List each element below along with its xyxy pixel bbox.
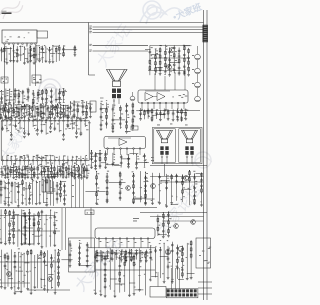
resistor R239 — [27, 250, 29, 256]
resistor R186 — [53, 166, 55, 172]
value label — [24, 274, 26, 277]
wire — [100, 251, 102, 294]
wire — [38, 212, 40, 244]
value label — [188, 187, 190, 190]
resistor R222 — [168, 228, 170, 234]
resistor R124 — [159, 60, 161, 66]
value label — [47, 162, 49, 165]
value label — [119, 186, 121, 189]
value label — [43, 113, 45, 116]
value label — [34, 289, 35, 292]
value label — [7, 129, 9, 132]
value label — [35, 118, 37, 121]
wire — [42, 46, 44, 63]
value label — [139, 265, 141, 268]
resistor R119 — [155, 54, 157, 60]
wire — [134, 197, 146, 199]
value label — [95, 253, 97, 256]
value label — [91, 164, 93, 167]
value label — [43, 123, 45, 126]
value label — [86, 158, 87, 161]
value label — [65, 104, 67, 107]
wire pin lead — [63, 156, 65, 160]
N101 pin b5 — [19, 159, 21, 161]
wire — [71, 166, 73, 177]
value label — [65, 128, 67, 131]
value label — [83, 117, 85, 120]
wire junction — [70, 101, 71, 102]
value label — [37, 96, 39, 99]
resistor R167 — [54, 105, 56, 111]
value label — [91, 212, 93, 215]
wire — [150, 176, 204, 178]
value label — [4, 201, 6, 204]
wire — [19, 184, 24, 186]
value label — [10, 95, 12, 98]
capacitor C176 — [28, 111, 31, 116]
value label — [7, 187, 8, 190]
resistor R155 — [5, 106, 7, 112]
value label — [90, 211, 91, 214]
ground — [127, 167, 130, 169]
wire — [147, 108, 149, 118]
value label — [127, 165, 128, 168]
resistor R188 — [59, 167, 61, 173]
value label — [187, 109, 189, 112]
value label — [20, 110, 21, 113]
ground — [77, 177, 80, 179]
watermark text bottom-middle — [72, 235, 127, 296]
value label — [69, 127, 71, 130]
value label — [29, 187, 31, 190]
ground — [63, 204, 66, 206]
capacitor C249 — [144, 183, 147, 188]
value label — [58, 52, 60, 55]
ground — [125, 132, 128, 134]
ground — [135, 168, 138, 170]
N101 pin 20 — [84, 120, 86, 122]
wire tuner pin stub — [35, 42, 37, 44]
wire — [23, 47, 25, 63]
wire — [96, 250, 98, 260]
value label — [52, 261, 53, 264]
wire — [45, 215, 47, 248]
wire internal stub — [54, 122, 56, 130]
wire junction — [182, 174, 183, 175]
value label — [107, 106, 109, 109]
value label — [23, 112, 25, 115]
wire — [4, 182, 6, 203]
wire — [74, 101, 80, 103]
value label — [164, 73, 165, 76]
value label — [176, 195, 177, 198]
value label — [135, 253, 136, 256]
value label — [23, 209, 25, 212]
value label — [0, 108, 1, 111]
value label — [38, 164, 40, 167]
resistor R110 — [32, 98, 34, 104]
wire — [40, 251, 42, 289]
value label — [53, 190, 55, 193]
value label — [22, 92, 24, 95]
wire — [35, 108, 38, 110]
wire junction — [19, 166, 20, 167]
resistor R213 — [189, 170, 191, 176]
capacitor C193 — [82, 110, 85, 115]
value label — [119, 190, 121, 193]
wire — [7, 166, 9, 177]
ground — [167, 236, 170, 238]
wire — [30, 105, 34, 107]
resistor R203 — [106, 178, 108, 184]
value label — [10, 110, 12, 113]
value label — [41, 117, 44, 120]
wire — [41, 210, 43, 247]
wire pin lead — [50, 117, 52, 120]
wire — [144, 153, 146, 166]
resistor R127 — [164, 56, 166, 62]
value label — [157, 124, 160, 127]
wire to N201 — [154, 74, 156, 90]
value label — [2, 111, 3, 114]
capacitor C192 — [82, 104, 85, 109]
wire pin lead — [80, 117, 82, 120]
value label — [29, 110, 31, 113]
resistor R220 — [162, 222, 164, 228]
value label — [22, 233, 24, 236]
wire — [144, 254, 146, 296]
wire control run 3 — [79, 168, 81, 208]
wire — [84, 170, 90, 172]
wire — [120, 250, 127, 252]
value label — [30, 191, 31, 194]
wire pin lead — [6, 156, 8, 160]
value label — [81, 166, 83, 169]
value label — [27, 156, 29, 159]
ground — [168, 75, 171, 77]
resistor R248 — [104, 255, 106, 261]
value label — [159, 189, 161, 192]
capacitor C275 — [4, 264, 7, 269]
value label — [15, 106, 17, 109]
value label — [34, 127, 35, 130]
value label — [86, 114, 88, 117]
value label — [119, 249, 120, 252]
value label — [128, 160, 130, 163]
value label — [5, 267, 6, 270]
wire — [55, 98, 62, 100]
value label — [126, 104, 128, 107]
value label — [30, 168, 31, 171]
value label — [84, 123, 86, 126]
resistor R125 — [159, 66, 161, 72]
wire internal stub — [45, 122, 47, 135]
wire — [15, 291, 20, 293]
wire — [112, 104, 114, 131]
value label — [102, 119, 104, 122]
wire — [89, 74, 96, 76]
resistor R102 — [16, 52, 18, 58]
value label — [20, 255, 22, 258]
wire — [1, 105, 4, 107]
value label — [82, 169, 84, 172]
resistor R233 — [38, 211, 40, 217]
value label — [60, 111, 62, 114]
value label — [44, 179, 45, 182]
value label — [4, 118, 6, 121]
ground — [24, 178, 27, 180]
value label — [37, 97, 39, 100]
wire — [197, 46, 199, 54]
value label — [5, 170, 6, 173]
resistor R149 — [132, 117, 134, 123]
ground — [59, 117, 62, 119]
capacitor C277 — [14, 260, 17, 265]
value label — [144, 159, 146, 162]
value label — [15, 169, 17, 172]
wire pin lead — [2, 156, 4, 160]
wire — [101, 162, 107, 164]
value label — [76, 163, 77, 166]
N701 pin 3 — [112, 238, 114, 240]
value label — [87, 102, 89, 105]
value label — [74, 162, 75, 165]
value label — [17, 129, 19, 132]
wire pin lead — [80, 161, 82, 165]
value label — [6, 99, 8, 102]
wire — [189, 171, 191, 206]
value label — [22, 194, 24, 197]
value label — [34, 266, 36, 269]
ground — [9, 60, 12, 62]
wire — [156, 114, 164, 116]
wire — [140, 171, 142, 202]
value label — [107, 241, 109, 244]
value label — [158, 233, 160, 236]
resistor R151 — [99, 156, 101, 162]
value label — [72, 156, 74, 159]
wire — [151, 54, 159, 56]
wire B+ run — [61, 208, 63, 250]
value label — [38, 156, 40, 159]
value label — [5, 36, 6, 39]
ground — [38, 203, 41, 205]
value label — [29, 166, 31, 169]
wire — [106, 102, 108, 128]
wire junction — [71, 166, 72, 167]
value label — [87, 212, 88, 215]
resistor R112 — [41, 89, 43, 95]
value label — [23, 154, 25, 157]
wire — [45, 165, 50, 167]
value label — [188, 69, 190, 72]
value label — [170, 68, 171, 71]
ground — [24, 243, 27, 245]
wire junction — [9, 89, 10, 90]
wire junction — [54, 165, 55, 166]
N101 pin 5 — [19, 120, 21, 122]
capacitor C155 — [125, 119, 128, 124]
value label — [114, 158, 116, 161]
electrolytic capacitor C207 — [195, 82, 201, 88]
wire — [46, 180, 48, 205]
wire — [28, 210, 30, 245]
electrolytic capacitor C208 — [195, 96, 201, 102]
wire pin lead — [45, 161, 47, 165]
resistor R245 — [58, 257, 60, 263]
wire pin lead — [67, 156, 69, 160]
wire — [38, 94, 43, 96]
wire junction — [107, 173, 108, 174]
value label — [56, 156, 58, 159]
value label — [33, 118, 35, 121]
resistor R174 — [10, 168, 12, 174]
value label — [155, 71, 157, 74]
value label — [31, 169, 33, 172]
value label — [121, 113, 123, 116]
wire — [157, 215, 159, 236]
ground — [106, 201, 109, 203]
wire — [166, 158, 168, 164]
wire — [95, 152, 97, 168]
wire pin lead — [58, 156, 60, 160]
wire junction — [40, 103, 41, 104]
wire — [128, 249, 130, 295]
watermark text mid-right — [154, 182, 206, 239]
capacitor C132 — [183, 53, 186, 58]
connector speaker plug — [185, 146, 193, 155]
value label — [40, 163, 42, 166]
value label — [5, 241, 6, 244]
value label — [36, 112, 37, 115]
value label — [57, 109, 59, 112]
wire — [50, 165, 52, 177]
value label — [47, 104, 49, 107]
wire — [9, 107, 14, 109]
wire junction — [86, 101, 87, 102]
value label — [9, 192, 10, 195]
value label — [10, 217, 12, 220]
resistor R147 — [132, 102, 134, 108]
value label — [163, 217, 165, 220]
wire pin lead — [36, 156, 38, 160]
value label — [100, 290, 101, 293]
value label — [33, 94, 35, 97]
wire pin lead — [32, 156, 34, 160]
value label — [69, 245, 71, 248]
ground — [86, 177, 89, 179]
value label — [96, 259, 98, 262]
capacitor C292 — [86, 254, 89, 259]
wire internal stub — [15, 122, 17, 127]
value label — [167, 177, 168, 180]
capacitor C213 — [18, 167, 21, 172]
capacitor C144 — [180, 116, 183, 121]
capacitor C253 — [165, 186, 168, 191]
ground — [45, 103, 48, 105]
value label — [120, 182, 122, 185]
wire — [33, 166, 35, 177]
wire — [5, 99, 13, 101]
value label — [23, 189, 25, 192]
value label — [15, 128, 17, 131]
value label — [3, 108, 4, 111]
ground — [50, 177, 53, 179]
value label — [121, 249, 123, 252]
value label — [172, 96, 173, 99]
wire pin lead — [63, 161, 65, 165]
wire — [141, 104, 143, 109]
ground — [101, 260, 104, 262]
wire junction — [1, 90, 2, 91]
value label — [3, 80, 4, 83]
value label — [22, 253, 24, 256]
value label — [76, 155, 78, 158]
value label — [39, 78, 41, 81]
transistor V401 — [151, 184, 156, 189]
value label — [9, 103, 11, 106]
value label — [63, 155, 65, 158]
value label — [29, 46, 31, 49]
wire junction — [194, 173, 195, 174]
resistor R209 — [145, 193, 147, 199]
wire pin lead — [28, 156, 30, 160]
capacitor C104 — [29, 53, 32, 58]
wire — [178, 47, 180, 74]
wire — [109, 181, 126, 183]
value label — [51, 175, 53, 178]
value label — [47, 173, 49, 176]
capacitor C284 — [69, 253, 72, 258]
wire — [106, 173, 108, 201]
wire — [39, 182, 41, 203]
value label — [37, 255, 38, 258]
value label — [70, 123, 71, 126]
wire — [161, 180, 170, 182]
wire — [105, 150, 107, 167]
capacitor C133 — [183, 64, 186, 69]
ground — [100, 129, 103, 131]
value label — [73, 127, 75, 130]
capacitor C221 — [68, 166, 71, 171]
capacitor C183 — [59, 106, 62, 111]
wire junction — [84, 166, 85, 167]
value label — [100, 255, 102, 258]
wire — [168, 212, 170, 236]
wire — [55, 89, 57, 103]
value label — [100, 240, 102, 243]
resistor R183 — [47, 167, 49, 173]
wire pin lead — [41, 161, 43, 165]
wire pin lead — [2, 161, 4, 165]
wire junction — [52, 45, 53, 46]
value label — [26, 44, 28, 47]
resistor R256 — [145, 253, 147, 259]
value label — [46, 118, 48, 121]
wire tuner pin stub — [13, 42, 15, 44]
wire junction — [51, 254, 52, 255]
capacitor C216 — [33, 167, 36, 172]
value label — [33, 76, 35, 79]
value label — [146, 179, 148, 182]
tuner pin 6 — [26, 43, 28, 45]
value label — [7, 268, 9, 271]
value label — [96, 203, 98, 206]
value label — [192, 82, 194, 85]
capacitor C296 — [104, 268, 107, 273]
wire junction — [39, 47, 40, 48]
value label — [102, 103, 104, 106]
